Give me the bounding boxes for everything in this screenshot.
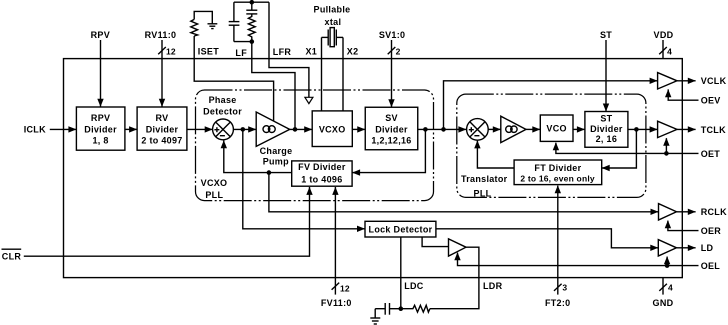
svg-text:FV Divider: FV Divider: [298, 162, 346, 172]
svg-text:Pump: Pump: [263, 157, 289, 167]
svg-text:VCXO: VCXO: [201, 178, 228, 188]
node dot OET: [664, 151, 669, 156]
pin SV1:0 label: [379, 30, 406, 40]
svg-text:CLR: CLR: [2, 251, 22, 261]
node dot LF bottom: [250, 39, 255, 44]
block VCO: [540, 115, 573, 141]
ground (bottom): [370, 309, 380, 324]
svg-text:RPV: RPV: [91, 30, 110, 40]
wire VCLK feed: [444, 78, 658, 130]
VCXO PLL dashed box: [196, 90, 434, 201]
wire TCLK out: [677, 126, 696, 132]
wire RV to phase detector: [187, 126, 213, 132]
wire RPV to RV: [125, 126, 137, 132]
svg-text:Charge: Charge: [260, 146, 293, 156]
block FT Divider: [514, 160, 602, 185]
svg-text:OER: OER: [701, 226, 722, 236]
svg-text:2, 16: 2, 16: [596, 134, 618, 144]
wire SV out to PD2: [418, 126, 467, 132]
wire RCLK feed: [269, 173, 659, 215]
pin X2 label: [347, 47, 359, 57]
phase detector PD1: [213, 119, 234, 140]
bus slash 3: [554, 282, 567, 292]
node dot FV out: [267, 170, 272, 175]
node dot LDC: [399, 306, 404, 311]
open arrow LFR end: [305, 97, 313, 103]
buffer LD: [658, 240, 676, 256]
wire RCLK out: [677, 209, 696, 215]
Translator PLL label: [461, 174, 508, 198]
svg-text:LFR: LFR: [273, 47, 292, 57]
svg-text:VCO: VCO: [546, 124, 566, 134]
svg-text:PLL: PLL: [474, 188, 492, 198]
VCXO PLL label: [201, 178, 228, 200]
svg-text:RV: RV: [156, 113, 169, 123]
pin VCLK label: [701, 76, 727, 86]
svg-text:VDD: VDD: [654, 30, 674, 40]
svg-text:X2: X2: [347, 47, 359, 57]
wire PD1 to charge pump: [233, 126, 256, 132]
wire LFR into chip: [269, 2, 309, 97]
svg-text:LF: LF: [235, 48, 247, 58]
wire RV11:0 down: [159, 40, 165, 107]
svg-text:LDR: LDR: [483, 281, 503, 291]
wire FT out to PD2: [474, 140, 514, 168]
chip outline: [64, 59, 683, 278]
svg-text:ST: ST: [600, 30, 612, 40]
svg-text:Phase: Phase: [209, 95, 237, 105]
block FV Divider: [292, 161, 352, 186]
pin RPV label: [91, 30, 110, 40]
block Lock Detector: [365, 221, 436, 237]
wire CP2 to VCO: [526, 126, 540, 132]
svg-text:TCLK: TCLK: [701, 125, 726, 135]
Pullable xtal label: [314, 4, 351, 26]
svg-text:Divider: Divider: [146, 125, 179, 135]
pin OEL label: [701, 261, 721, 271]
pin ST label: [600, 30, 612, 40]
wire SV1:0 down: [388, 40, 394, 107]
wire X2: [342, 37, 344, 111]
Translator PLL dashed box: [457, 94, 646, 197]
wire ISET into chip: [194, 36, 273, 121]
wire OEV: [665, 89, 699, 100]
pin RCLK label: [701, 207, 727, 217]
svg-text:OET: OET: [701, 149, 721, 159]
svg-text:Detector: Detector: [203, 107, 242, 117]
svg-text:X1: X1: [305, 47, 317, 57]
buffer lock detector: [449, 239, 467, 256]
wire FV out to PD1: [221, 140, 292, 172]
svg-text:FT Divider: FT Divider: [534, 163, 581, 173]
svg-text:FV11:0: FV11:0: [321, 298, 352, 308]
pin FV11:0 label: [321, 298, 352, 308]
svg-text:VCLK: VCLK: [701, 76, 727, 86]
crystal Y1: [322, 28, 344, 47]
svg-text:RV11:0: RV11:0: [145, 30, 177, 40]
pin LFR label: [273, 47, 292, 57]
svg-text:12: 12: [340, 283, 350, 293]
wire FV11:0: [332, 187, 338, 295]
svg-text:LDC: LDC: [404, 281, 424, 291]
bus slash 4: [659, 46, 672, 56]
block RV Divider: [137, 107, 187, 150]
pin LDR label: [483, 281, 503, 291]
resistor ISET: [191, 19, 198, 36]
wire CP1 to VCXO: [290, 126, 313, 132]
pin ICLK label: [24, 125, 46, 135]
wire feedback to FV divider: [352, 129, 425, 175]
svg-text:1, 8: 1, 8: [92, 136, 108, 146]
buffer TCLK: [658, 121, 677, 137]
svg-text:4: 4: [667, 46, 672, 56]
svg-text:Divider: Divider: [84, 125, 117, 135]
charge pump CP2: [501, 116, 526, 142]
wire ST down: [603, 40, 609, 112]
capacitor C2 (LF mid): [246, 2, 257, 14]
loop filter bottom node wire: [234, 41, 252, 43]
svg-text:Translator: Translator: [461, 174, 508, 184]
svg-text:4: 4: [668, 282, 673, 292]
svg-text:VCXO: VCXO: [319, 125, 346, 135]
svg-text:Divider: Divider: [590, 124, 623, 134]
svg-text:OEL: OEL: [701, 261, 721, 271]
node dot OEL: [665, 263, 670, 268]
wire VDD: [662, 40, 664, 59]
svg-text:OEV: OEV: [701, 96, 721, 106]
wire VCLK out: [677, 78, 696, 84]
wire LDC: [400, 237, 402, 309]
wire FT2:0: [555, 185, 561, 294]
pin X1 label: [305, 47, 317, 57]
pin LF label: [235, 48, 247, 58]
Phase Detector label: [203, 95, 242, 116]
wire ST out to TCLK buffer: [628, 126, 658, 132]
bus slash 2: [388, 46, 401, 56]
wire CLR: [24, 187, 313, 256]
pin LDC label: [404, 281, 424, 291]
svg-text:GND: GND: [653, 298, 674, 308]
pin OEV label: [701, 96, 721, 106]
svg-text:SV1:0: SV1:0: [379, 30, 406, 40]
svg-text:2: 2: [396, 46, 401, 56]
pin VDD label: [654, 30, 674, 40]
svg-text:2 to 16, even only: 2 to 16, even only: [520, 173, 595, 183]
wire OER: [665, 220, 699, 230]
wire buffer out to LDR: [430, 247, 479, 309]
resistor R2 (LF mid): [248, 14, 255, 42]
wire lock detector to LDC buffer input: [422, 237, 448, 247]
svg-text:SV: SV: [385, 113, 398, 123]
ground (ISET): [208, 24, 218, 29]
wire feedback to FT divider: [602, 129, 637, 171]
svg-text:xtal: xtal: [325, 17, 342, 27]
pin ISET label: [198, 47, 219, 57]
node dot ST out: [634, 127, 639, 132]
phase detector PD2: [467, 119, 489, 141]
bus slash 4 (GND): [659, 282, 673, 292]
pin CLR label: [2, 249, 22, 261]
block ST Divider: [585, 112, 628, 148]
node dot SV out A: [423, 127, 428, 132]
charge pump CP1: [256, 112, 290, 146]
buffer VCLK: [658, 73, 677, 89]
resistor R3 (LDC-LDR): [401, 305, 430, 312]
wire OET: [553, 138, 699, 154]
svg-text:ISET: ISET: [198, 47, 219, 57]
svg-text:1 to 4096: 1 to 4096: [301, 175, 342, 185]
svg-text:Lock Detector: Lock Detector: [369, 224, 433, 234]
wire PD1 tap to lock detector: [243, 129, 365, 232]
svg-text:ICLK: ICLK: [24, 125, 46, 135]
node dot PD1 out: [241, 127, 246, 132]
wire ICLK: [50, 126, 77, 132]
svg-text:12: 12: [166, 46, 176, 56]
block VCXO: [312, 111, 352, 147]
wire X1: [321, 37, 323, 111]
node dot VCXO input: [293, 127, 298, 132]
bus slash 12: [158, 46, 176, 56]
pin OER label: [701, 226, 722, 236]
svg-text:ST: ST: [600, 114, 612, 124]
node dot LF top: [250, 0, 255, 5]
svg-text:Pullable: Pullable: [314, 4, 351, 14]
pin RV11:0 label: [145, 30, 177, 40]
capacitor C1 (LF left): [229, 2, 240, 41]
wire VCO to ST divider: [573, 126, 585, 132]
block SV Divider: [365, 107, 418, 150]
svg-text:2 to 4097: 2 to 4097: [141, 136, 182, 146]
pin FT2:0 label: [545, 298, 571, 308]
pin GND label: [653, 298, 674, 308]
svg-text:LD: LD: [701, 243, 714, 253]
block RPV Divider: [76, 107, 125, 150]
wire OEL: [454, 252, 698, 265]
svg-text:FT2:0: FT2:0: [545, 298, 571, 308]
pin LD label: [701, 243, 714, 253]
svg-text:PLL: PLL: [205, 190, 223, 200]
wire GND: [662, 278, 664, 295]
svg-text:1,2,12,16: 1,2,12,16: [371, 136, 411, 146]
buffer RCLK: [659, 204, 677, 220]
svg-text:Divider: Divider: [375, 125, 408, 135]
svg-text:RPV: RPV: [91, 113, 110, 123]
wire RPV down: [97, 40, 103, 107]
svg-text:3: 3: [562, 282, 567, 292]
wire ISET top to ground: [194, 11, 212, 23]
wire LF into chip: [252, 42, 295, 130]
pin TCLK label: [701, 125, 726, 135]
pin OET label: [701, 149, 721, 159]
Charge Pump label: [260, 146, 293, 167]
capacitor C3 (LDC): [375, 303, 401, 315]
bus slash 12 (FV): [332, 283, 350, 294]
wire lock detector to LD buffer: [436, 229, 658, 251]
wire VCXO to SV divider: [352, 126, 365, 132]
wire LD out: [677, 245, 696, 251]
svg-text:RCLK: RCLK: [701, 207, 727, 217]
node dot SV out B: [441, 127, 446, 132]
loop filter top node wire: [234, 1, 269, 3]
wire PD2 to CP2: [488, 126, 501, 132]
